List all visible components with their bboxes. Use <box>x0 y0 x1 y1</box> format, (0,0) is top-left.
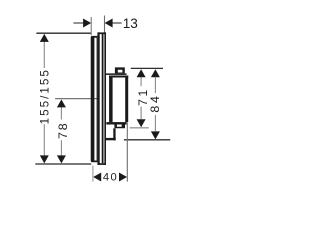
back slab (function unit behind plate) <box>91 36 98 162</box>
node 78 bottom arrow <box>57 155 66 163</box>
node 155/155 dimension line <box>43 42 45 156</box>
node 71 bottom arrow <box>137 119 146 127</box>
node 71 top arrow <box>137 69 146 77</box>
handle body bottom bar <box>106 122 126 124</box>
wire: bottom extension line (plate bottom) <box>35 163 91 165</box>
plate bottom edge <box>98 163 106 165</box>
handle lower bracket horizontal (base cylinder bottom) <box>106 138 116 140</box>
svg-text:13: 13 <box>123 16 138 31</box>
node 155/155 bottom arrow <box>40 155 49 163</box>
node 84 dimension line <box>154 77 156 131</box>
node 84 bottom arrow <box>151 131 160 139</box>
handle body right wall <box>125 76 128 123</box>
wire: 13 right tail <box>113 22 122 24</box>
node 71 dimension line <box>140 77 142 119</box>
handle foot <box>114 125 125 129</box>
wire: 78 top reference line (handle axis) <box>55 98 98 100</box>
node 13 right arrow (points left) <box>105 19 113 28</box>
svg-text:155/155: 155/155 <box>38 68 51 124</box>
handle body top edge <box>109 76 128 78</box>
plate middle line <box>102 34 104 163</box>
plate top edge <box>98 32 106 34</box>
wire: 13 left tail <box>73 22 83 24</box>
handle cap <box>115 67 125 73</box>
svg-text:84: 84 <box>148 93 162 112</box>
technical dimension drawing: concealed shower thermostat side view <box>0 0 200 200</box>
node 40 left arrow (points left) <box>93 173 101 182</box>
handle foot right wall upper part <box>122 125 125 127</box>
svg-text:40: 40 <box>103 171 118 183</box>
wire: 13 left extension line <box>90 17 92 35</box>
wire: 84 bottom extension line <box>124 139 170 141</box>
handle lower bracket vertical <box>113 128 115 140</box>
wire: 40 right extension line <box>126 123 128 182</box>
node 78 top arrow <box>57 99 66 107</box>
escutcheon plate side profile <box>97 32 106 165</box>
handle shoulder / base cylinder top <box>106 73 127 75</box>
wire: top extension line (plate top) <box>36 32 91 34</box>
wire: 71 bottom extension line (handle foot bottom) <box>130 127 149 129</box>
node 78 dimension line <box>60 107 62 155</box>
plate left wall <box>97 32 99 165</box>
plate right wall <box>104 32 106 165</box>
node 40 right arrow (points right) <box>119 173 127 182</box>
node 155/155 top arrow <box>40 34 49 42</box>
node 84 top arrow <box>151 69 160 77</box>
wire: 71/84 top extension line (handle cap top) <box>131 67 163 69</box>
wire: 40 left extension line <box>92 166 94 182</box>
svg-text:78: 78 <box>56 121 70 139</box>
handle body left wall <box>109 76 113 123</box>
node 13 left arrow (points right) <box>83 19 91 28</box>
wire: 13 right extension line <box>104 16 106 33</box>
